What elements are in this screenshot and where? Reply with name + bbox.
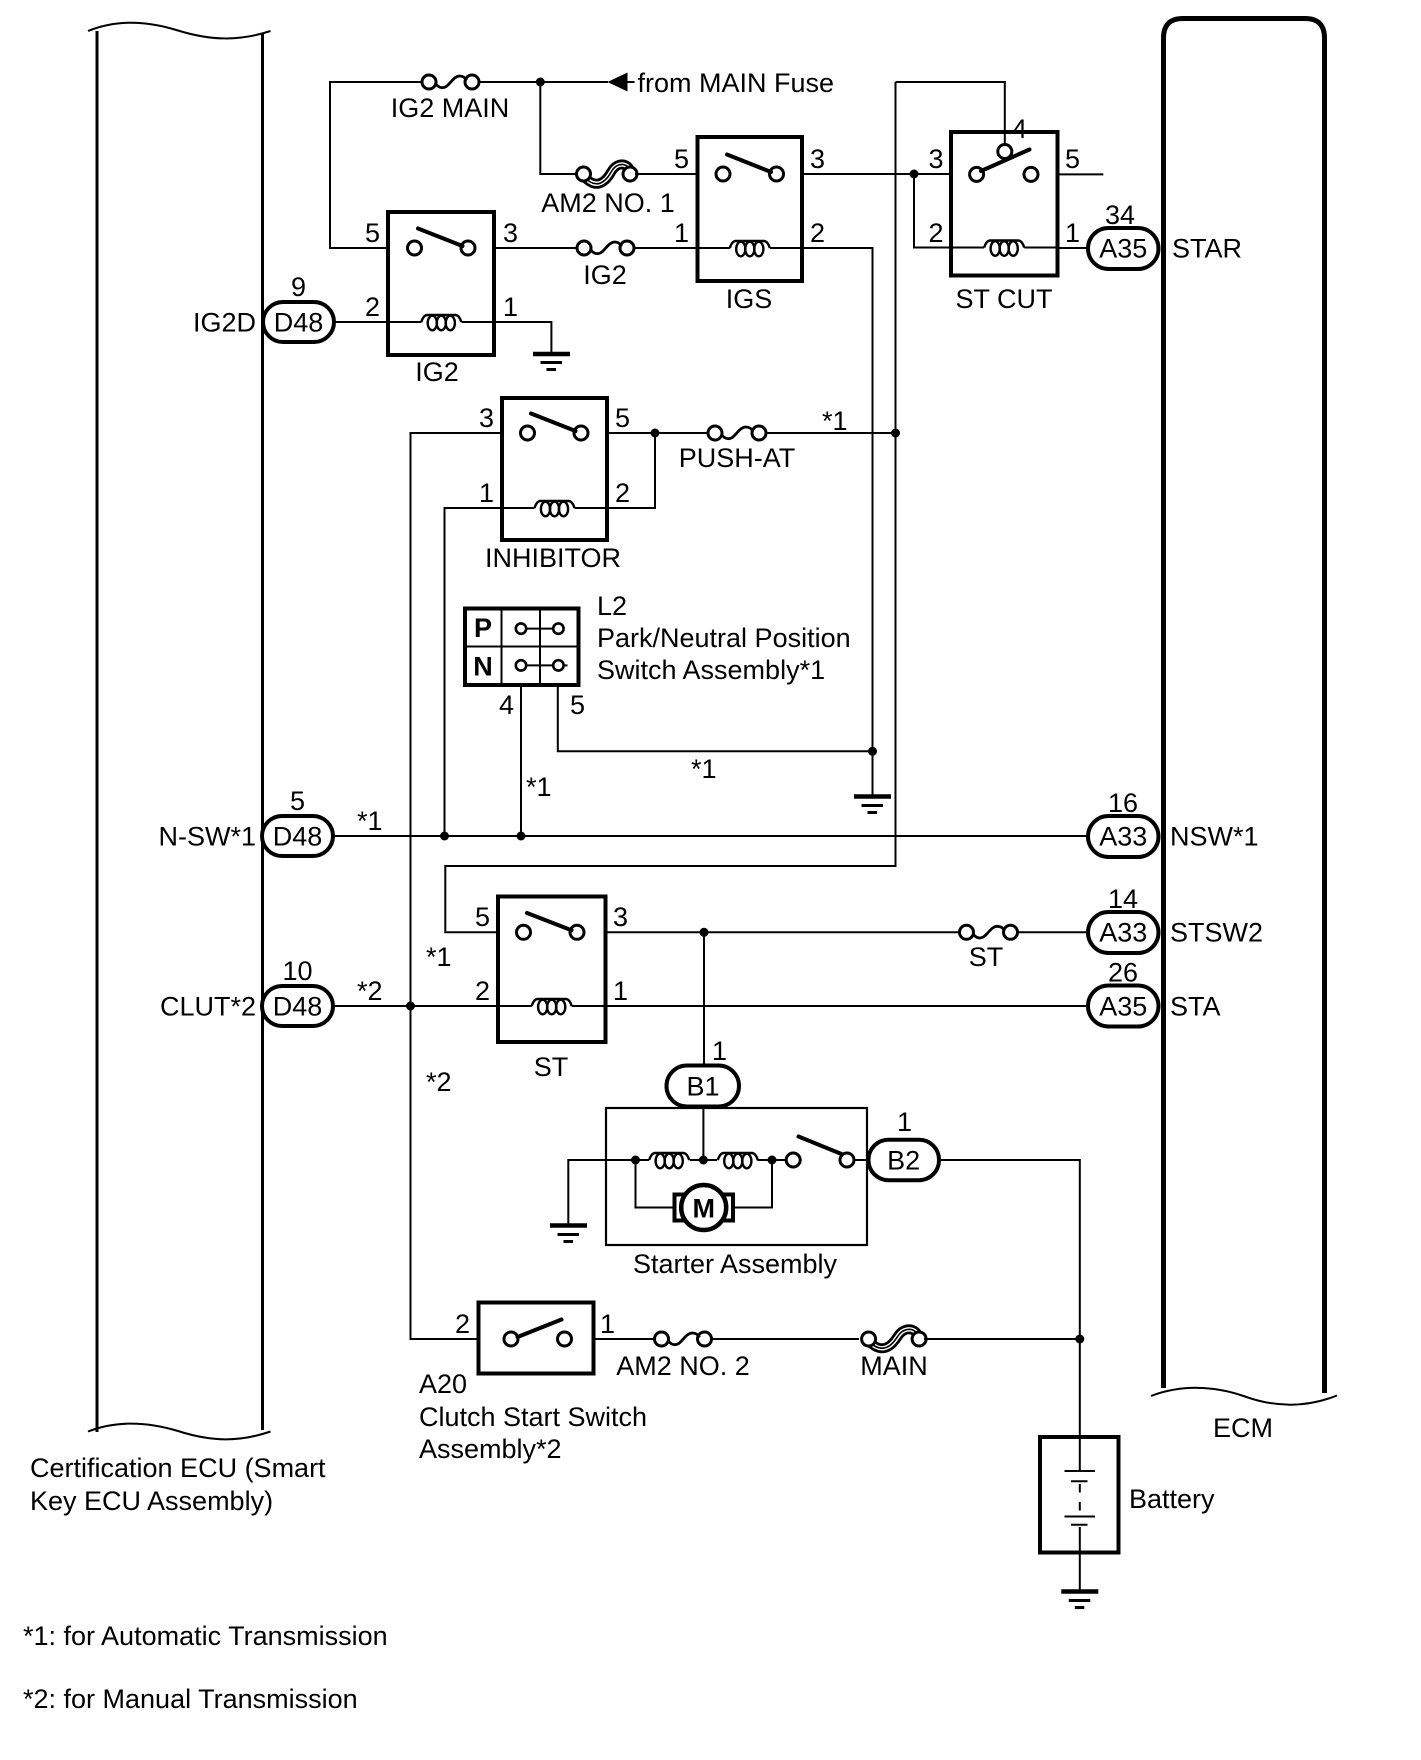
wire ST pin1 to A35 (606, 1005, 1089, 1007)
svg-text:STSW2: STSW2 (1170, 918, 1263, 948)
connector D48 (N-SW*1 pin 5) (158, 786, 333, 856)
wire L2 pin4 to N-SW net (520, 685, 522, 836)
svg-text:A35: A35 (1099, 234, 1147, 264)
svg-text:5: 5 (1065, 144, 1080, 174)
wire IG2 pin1 to ground (494, 322, 551, 352)
svg-text:PUSH-AT: PUSH-AT (679, 443, 796, 473)
svg-text:N: N (473, 652, 493, 682)
wire IGS pin3 to ST CUT pin3 (802, 173, 951, 175)
svg-text:STA: STA (1170, 992, 1221, 1022)
fuse IG2 MAIN (391, 75, 510, 123)
svg-text:Key ECU Assembly): Key ECU Assembly) (30, 1486, 273, 1516)
svg-text:2: 2 (928, 218, 943, 248)
clutch start switch A20 (419, 1303, 647, 1465)
svg-text:34: 34 (1105, 200, 1135, 230)
arrow from MAIN Fuse (608, 68, 835, 98)
svg-text:Clutch Start Switch: Clutch Start Switch (419, 1402, 647, 1432)
svg-text:*2: *2 (426, 1067, 452, 1097)
connector B2 (pin 1) (869, 1107, 940, 1180)
svg-text:*1: *1 (357, 806, 383, 836)
svg-text:N-SW*1: N-SW*1 (158, 822, 256, 852)
wire INHIBITOR pin2 to node (607, 433, 655, 508)
svg-text:1: 1 (1065, 218, 1080, 248)
svg-text:*1: for Automatic Transmission: *1: for Automatic Transmission (23, 1621, 388, 1651)
wire node to B1 (703, 932, 705, 1065)
svg-text:IG2: IG2 (583, 260, 627, 290)
ECM bus (1151, 19, 1337, 1444)
relay IGS (698, 137, 803, 314)
svg-text:5: 5 (365, 218, 380, 248)
connector A35 (STA pin 26) (1088, 958, 1221, 1027)
wire ST CUT pin1 to A35 (1058, 247, 1089, 249)
junction node (406, 1002, 415, 1011)
svg-text:5: 5 (290, 786, 305, 816)
svg-text:Assembly*2: Assembly*2 (419, 1434, 562, 1464)
svg-text:26: 26 (1108, 958, 1138, 988)
relay INHIBITOR (485, 398, 621, 573)
starter assembly box (606, 1108, 867, 1279)
fusible link AM2 NO. 1 (541, 164, 675, 218)
svg-text:NSW*1: NSW*1 (1170, 822, 1259, 852)
svg-text:3: 3 (479, 403, 494, 433)
relay IG2 (388, 212, 494, 387)
wire IG2 relay pin5 to IG2 MAIN fuse (330, 82, 422, 248)
svg-text:3: 3 (503, 218, 518, 248)
svg-text:ST CUT: ST CUT (955, 284, 1052, 314)
svg-text:CLUT*2: CLUT*2 (160, 992, 256, 1022)
wire INHIBITOR pin5 to PUSH-AT (607, 432, 708, 434)
svg-text:Park/Neutral Position: Park/Neutral Position (597, 623, 851, 653)
ground (IGS coil / L2 pin5) (854, 797, 891, 813)
junction node (517, 832, 526, 841)
svg-text:5: 5 (615, 403, 630, 433)
wire CLUT net to ST pin2 (333, 1005, 498, 1007)
wire to B2 (854, 1159, 869, 1161)
svg-text:IG2 MAIN: IG2 MAIN (391, 93, 510, 123)
wire fuse to junction (479, 81, 608, 83)
svg-text:IGS: IGS (726, 284, 773, 314)
ground (battery) (1061, 1592, 1098, 1608)
wire node to ST CUT pin2 (914, 174, 951, 248)
svg-text:D48: D48 (273, 822, 323, 852)
svg-text:ST: ST (534, 1052, 569, 1082)
wire junction to AM2 NO.1 fusible link (540, 82, 577, 174)
svg-text:1: 1 (613, 976, 628, 1006)
junction node (768, 1156, 777, 1165)
svg-text:D48: D48 (274, 308, 324, 338)
svg-text:1: 1 (897, 1107, 912, 1137)
wire coil row segment (636, 1159, 650, 1161)
svg-text:3: 3 (613, 902, 628, 932)
wire coil row segment (690, 1159, 718, 1161)
wire IG2 fuse to IGS pin1 (634, 247, 697, 249)
junction node (631, 1156, 640, 1165)
wire clutch switch to AM2 NO.2 (594, 1338, 656, 1340)
battery (1040, 1437, 1215, 1553)
connector A33 (NSW*1 pin 16) (1088, 788, 1259, 857)
svg-text:IG2D: IG2D (193, 308, 256, 338)
Certification ECU (Smart Key ECU Assembly) bus (30, 23, 326, 1516)
wire ST CUT pin4 riser (896, 82, 1005, 145)
svg-text:A35: A35 (1099, 992, 1147, 1022)
wire node down to ST relay pin5 (445, 82, 895, 932)
motor M (636, 1160, 773, 1230)
connector D48 (IG2D pin 9) (193, 272, 334, 342)
junction node (699, 1156, 708, 1165)
svg-text:2: 2 (810, 218, 825, 248)
svg-text:D48: D48 (273, 992, 323, 1022)
ground (IG2 relay coil) (533, 354, 570, 370)
relay ST CUT (951, 132, 1058, 314)
wire battery to ground (1079, 1553, 1081, 1591)
wire starter ground branch (568, 1160, 635, 1224)
wire L2 pin5 to ground (558, 685, 873, 751)
svg-text:Starter Assembly: Starter Assembly (633, 1249, 838, 1279)
svg-text:1: 1 (674, 218, 689, 248)
svg-text:9: 9 (291, 272, 306, 302)
wire MAIN to battery node (924, 1338, 1080, 1340)
wire D48 to IG2 relay pin2 (334, 321, 388, 323)
svg-text:A20: A20 (419, 1369, 467, 1399)
wire PUSH-AT to node (766, 432, 896, 434)
svg-text:P: P (474, 613, 492, 643)
svg-text:ST: ST (969, 942, 1004, 972)
wire ST fuse to A33 (1018, 931, 1089, 933)
svg-text:*1: *1 (526, 772, 552, 802)
coil (starter winding 1) (649, 1153, 689, 1168)
wire N-SW net (333, 835, 1088, 837)
svg-text:1: 1 (712, 1036, 727, 1066)
svg-text:1: 1 (600, 1309, 615, 1339)
wire ST CUT pin5 stub (1058, 173, 1104, 175)
junction node (1075, 1335, 1084, 1344)
svg-text:3: 3 (810, 144, 825, 174)
wire coil row segment (757, 1159, 786, 1161)
wire IGS pin2 to ground (802, 248, 873, 795)
svg-text:4: 4 (1012, 114, 1027, 144)
ground (starter assembly) (550, 1226, 587, 1242)
svg-text:5: 5 (674, 144, 689, 174)
svg-text:2: 2 (455, 1309, 470, 1339)
svg-text:3: 3 (928, 144, 943, 174)
svg-text:INHIBITOR: INHIBITOR (485, 543, 621, 573)
junction node (536, 78, 545, 87)
svg-text:2: 2 (615, 478, 630, 508)
wire AM2 NO.2 to MAIN (712, 1338, 860, 1340)
connector A33 (STSW2 pin 14) (1088, 884, 1263, 953)
svg-text:*1: *1 (822, 406, 848, 436)
fusible link MAIN (860, 1329, 928, 1381)
svg-text:from MAIN Fuse: from MAIN Fuse (638, 68, 835, 98)
wire INHIBITOR pin1 to N-SW net (445, 508, 503, 836)
svg-text:L2: L2 (597, 591, 627, 621)
wire INHIBITOR pin3 rail to clutch switch (411, 433, 503, 1339)
fuse AM2 NO. 2 (616, 1332, 750, 1381)
svg-text:B1: B1 (686, 1072, 719, 1102)
svg-text:14: 14 (1108, 884, 1138, 914)
svg-text:B2: B2 (887, 1146, 920, 1176)
fuse PUSH-AT (679, 426, 796, 473)
switch (magnetic switch contacts) (786, 1137, 854, 1168)
svg-text:*2: *2 (357, 976, 383, 1006)
wire IG2 pin3 to IG2 fuse (494, 247, 577, 249)
svg-text:2: 2 (475, 976, 490, 1006)
coil (starter winding 2) (718, 1153, 758, 1168)
fuse ST (960, 925, 1018, 972)
svg-text:10: 10 (282, 956, 312, 986)
svg-text:16: 16 (1108, 788, 1138, 818)
park/neutral position switch L2 (465, 591, 851, 685)
wire B2 to battery (939, 1160, 1080, 1437)
svg-text:*1: *1 (426, 942, 452, 972)
svg-text:2: 2 (365, 292, 380, 322)
svg-text:1: 1 (479, 478, 494, 508)
svg-text:5: 5 (570, 690, 585, 720)
junction node (891, 429, 900, 438)
svg-text:4: 4 (499, 690, 514, 720)
svg-text:MAIN: MAIN (860, 1351, 928, 1381)
connector D48 (CLUT*2 pin 10) (160, 956, 333, 1026)
svg-text:M: M (692, 1194, 715, 1224)
svg-text:5: 5 (475, 902, 490, 932)
junction node (651, 429, 660, 438)
svg-text:*2: for Manual Transmission: *2: for Manual Transmission (23, 1684, 358, 1714)
relay ST (498, 897, 606, 1083)
svg-text:Switch Assembly*1: Switch Assembly*1 (597, 655, 825, 685)
svg-text:Battery: Battery (1129, 1484, 1215, 1514)
svg-text:1: 1 (503, 292, 518, 322)
wire ST pin3 to ST fuse (606, 931, 961, 933)
svg-text:IG2: IG2 (415, 357, 459, 387)
svg-text:A33: A33 (1099, 822, 1147, 852)
svg-text:A33: A33 (1099, 918, 1147, 948)
connector B1 (667, 1066, 740, 1107)
connector A35 (STAR pin 34) (1088, 200, 1242, 269)
wire B1 to starter coil node (702, 1107, 704, 1161)
junction node (868, 747, 877, 756)
fuse IG2 (577, 241, 634, 290)
svg-text:AM2 NO. 1: AM2 NO. 1 (541, 188, 675, 218)
svg-text:STAR: STAR (1172, 234, 1242, 264)
wire AM2 NO.1 to IGS pin5 (635, 173, 697, 175)
svg-text:*1: *1 (691, 754, 717, 784)
svg-text:ECM: ECM (1213, 1413, 1273, 1443)
junction node (910, 170, 919, 179)
junction node (440, 832, 449, 841)
svg-text:AM2 NO. 2: AM2 NO. 2 (616, 1351, 750, 1381)
junction node (700, 928, 709, 937)
svg-text:Certification ECU (Smart: Certification ECU (Smart (30, 1453, 326, 1483)
